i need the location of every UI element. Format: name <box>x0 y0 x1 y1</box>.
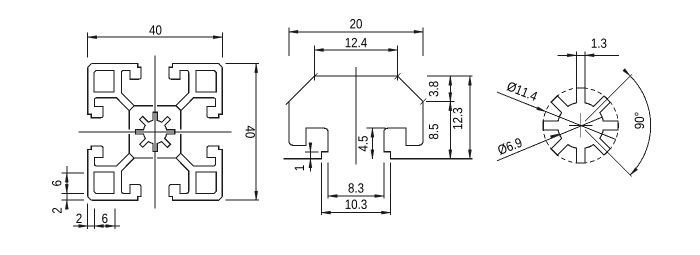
profile centerline vertical <box>154 56 156 209</box>
dimension 40 right <box>226 64 259 201</box>
dimension 4.5 <box>358 128 385 159</box>
bore detail dashed circle <box>543 88 618 163</box>
T-slot unit left half A <box>88 67 130 129</box>
dimension 6 bottom <box>102 209 115 229</box>
bore centerline vertical <box>580 113 582 138</box>
corner pocket SW <box>94 172 114 193</box>
profile centerline horizontal <box>79 131 232 133</box>
angular dimension 90 <box>585 69 651 177</box>
slot detail centerline <box>355 67 357 165</box>
corner chamfer SE <box>219 197 223 201</box>
dimension 40 top <box>88 25 223 57</box>
core octagon chamfer edges <box>129 106 181 158</box>
T-slot unit bottom half A <box>157 158 219 200</box>
corner chamfer SW <box>88 197 92 201</box>
dimension 1.3 <box>557 38 618 88</box>
leader diameter 11.4 <box>497 81 616 140</box>
corner pocket NE <box>196 70 216 91</box>
core chamfer edge NE <box>176 106 181 111</box>
T-slot unit top half A <box>91 64 153 106</box>
corner pocket NW <box>94 70 114 91</box>
T-slot unit right half A <box>181 134 223 196</box>
core chamfer edge SE <box>176 153 181 158</box>
T-slot unit right half B <box>181 67 223 129</box>
bore centerline horizontal <box>569 125 593 127</box>
corner chamfer NW <box>88 64 92 68</box>
tick marks flat corners <box>312 73 318 79</box>
slot detail outline right half <box>356 76 473 159</box>
corner chamfer NE <box>219 64 223 68</box>
profile corner pockets <box>94 70 216 193</box>
T-slot unit left half B <box>88 134 130 196</box>
core chamfer edge NW <box>129 106 134 111</box>
bore detail gear <box>543 88 618 163</box>
dimension 8.5 <box>429 102 452 159</box>
profile 40x40 cross-section outline <box>88 64 223 201</box>
dimension 12.3 <box>453 76 472 159</box>
tick marks wall tops <box>286 99 292 105</box>
dimension 10.3 <box>322 163 391 216</box>
core chamfer edge SW <box>129 153 134 158</box>
dimension 20 <box>289 19 423 56</box>
leader diameter 6.9 <box>497 117 602 161</box>
slot detail outline left half <box>283 76 356 159</box>
dimension 2 bottom <box>73 204 120 229</box>
dimension 8.3 <box>328 163 384 199</box>
profile corner chamfers <box>88 64 223 201</box>
dimension 1 <box>295 143 319 172</box>
T-slot unit bottom half B <box>91 158 153 200</box>
dimension 3.8 <box>426 76 473 101</box>
T-slot unit top half B <box>157 64 219 106</box>
corner pocket SE <box>196 172 216 193</box>
dimension 12.4 <box>315 38 398 81</box>
dimension 2 left <box>52 200 84 213</box>
dimension 6 left <box>52 166 84 208</box>
center bore gear <box>135 112 174 151</box>
